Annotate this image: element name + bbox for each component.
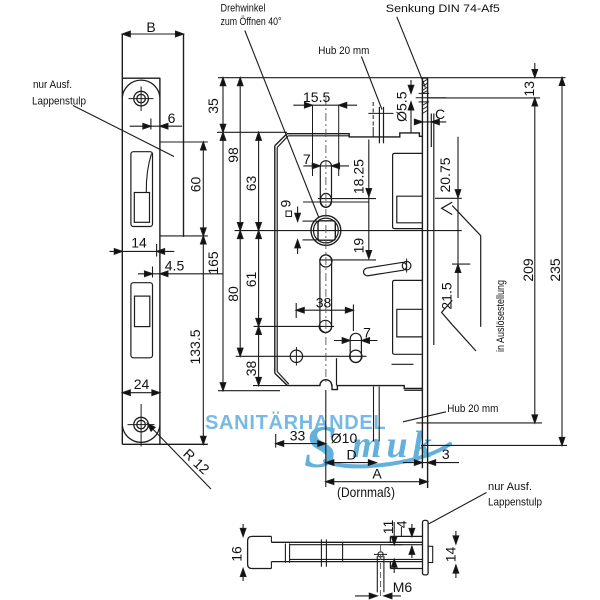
svg-text:38: 38 — [316, 295, 332, 311]
svg-text:zum Öffnen 40°: zum Öffnen 40° — [221, 16, 282, 28]
svg-text:133.5: 133.5 — [187, 329, 203, 364]
stulp strip — [421, 78, 423, 468]
svg-text:165: 165 — [205, 251, 221, 275]
svg-text:13: 13 — [521, 81, 537, 97]
dim 15.5 — [293, 104, 357, 106]
M6 hole — [378, 552, 383, 557]
svg-text:20.75: 20.75 — [437, 157, 453, 192]
svg-text:(Dornmaß): (Dornmaß) — [337, 484, 395, 500]
svg-text:60: 60 — [188, 177, 204, 193]
svg-text:6: 6 — [168, 110, 176, 126]
upper slot — [320, 161, 331, 208]
case top profile — [287, 133, 423, 137]
lower slot — [320, 255, 332, 332]
leader Hub bottom — [403, 412, 446, 422]
watermark — [205, 411, 450, 480]
dim 14 — [455, 531, 457, 544]
svg-text:24: 24 — [134, 376, 150, 392]
svg-text:14: 14 — [443, 547, 459, 563]
case left edge double — [274, 146, 276, 373]
latch bevel curve — [146, 154, 151, 193]
latch cutout window — [131, 152, 153, 227]
dim 209 line — [534, 98, 536, 423]
svg-text:M6: M6 — [393, 579, 413, 595]
svg-text:38: 38 — [243, 361, 259, 377]
svg-text:61: 61 — [243, 272, 259, 288]
dim 38 horizontal between holes — [296, 309, 353, 311]
lower inner box — [397, 309, 423, 337]
dim O5.5 — [410, 80, 412, 93]
small line under lower recess — [392, 363, 414, 365]
svg-text:A: A — [372, 466, 382, 482]
dim 33 — [276, 443, 326, 445]
svg-text:7: 7 — [303, 151, 311, 167]
fixing hole right with slot — [350, 350, 362, 362]
case inner top line — [288, 135, 349, 137]
svg-text:16: 16 — [229, 546, 245, 562]
dim 18.25 — [368, 140, 370, 259]
svg-text:Ø10: Ø10 — [331, 430, 358, 446]
svg-text:nur Ausf.: nur Ausf. — [33, 79, 72, 91]
upper recess — [393, 153, 423, 228]
svg-text:209: 209 — [520, 258, 536, 282]
svg-text:3: 3 — [442, 446, 450, 462]
dim 98 and 80 vertical line — [239, 78, 241, 357]
svg-text:7: 7 — [363, 325, 371, 341]
svg-text:235: 235 — [547, 258, 563, 282]
screw hole top — [129, 87, 154, 112]
dim 7 right slot — [334, 340, 378, 342]
stulp plate right edge — [159, 78, 161, 445]
svg-text:Hub 20 mm: Hub 20 mm — [318, 45, 369, 57]
svg-text:4: 4 — [394, 520, 410, 528]
svg-text:C: C — [435, 106, 445, 122]
dim 4.5 — [138, 273, 223, 275]
svg-text:Senkung DIN 74-Af5: Senkung DIN 74-Af5 — [386, 3, 500, 15]
leader Senkung — [397, 17, 426, 88]
svg-text:35: 35 — [205, 98, 221, 114]
screw hole in strip — [419, 92, 430, 94]
latch tab — [428, 546, 433, 562]
dim D and 3 — [326, 462, 377, 464]
deadbolt released outline chevron 1 — [442, 202, 453, 214]
dim 6 — [130, 125, 182, 127]
strip hatch — [422, 79, 427, 114]
dim B — [122, 33, 183, 35]
M6 ext and arrows — [376, 556, 378, 592]
svg-text:D: D — [346, 447, 356, 463]
centerline ext below case — [325, 390, 327, 487]
svg-text:98: 98 — [225, 147, 241, 163]
svg-text:Lappenstulp: Lappenstulp — [488, 497, 542, 509]
svg-text:15.5: 15.5 — [303, 89, 330, 105]
release pin capsule — [363, 262, 407, 277]
shared extension lines — [218, 77, 566, 79]
svg-text:33: 33 — [290, 427, 306, 443]
follower square 9 — [318, 221, 335, 240]
rounded end arc bottom — [122, 425, 160, 442]
bolt guide vertical — [336, 358, 338, 385]
deadbolt released outline chevron 2 — [442, 300, 453, 324]
svg-text:B: B — [146, 19, 155, 35]
svg-text:14: 14 — [131, 235, 147, 251]
dim 24 — [122, 392, 160, 394]
svg-text:nur Ausf.: nur Ausf. — [488, 481, 532, 493]
dim 11 — [393, 522, 395, 545]
svg-text:63: 63 — [243, 176, 259, 192]
lower slot hole top — [320, 255, 332, 267]
svg-text:Hub 20 mm: Hub 20 mm — [447, 403, 498, 415]
case bottom edge with notch — [288, 380, 423, 390]
dim 20.75 and 21.5 — [457, 137, 459, 298]
stulp plate left edge — [121, 34, 123, 444]
svg-text:in Auslösestellung: in Auslösestellung — [495, 280, 507, 352]
follower nut — [311, 216, 341, 246]
latch window edges — [312, 105, 314, 176]
stulp top edge — [122, 77, 160, 79]
body top/bottom — [271, 541, 422, 543]
svg-text:Lappenstulp: Lappenstulp — [32, 96, 86, 108]
dim 4 — [411, 524, 413, 536]
centerline dashed — [325, 97, 327, 385]
svg-text:80: 80 — [225, 286, 241, 302]
upper inner box — [397, 196, 423, 223]
right block — [390, 535, 422, 537]
left end block — [248, 536, 272, 568]
text labels left side — [32, 19, 259, 477]
svg-text:9: 9 — [278, 200, 294, 208]
svg-text:Drehwinkel: Drehwinkel — [221, 3, 266, 15]
dim 16 — [242, 524, 244, 536]
svg-text:Ø5.5: Ø5.5 — [394, 91, 410, 122]
dividers — [284, 544, 286, 563]
latch front faces — [430, 114, 432, 148]
dim 7 top — [303, 165, 349, 167]
latch face — [134, 193, 149, 223]
svg-text:19: 19 — [351, 238, 367, 254]
stulp bottom edge plus ext — [122, 443, 208, 445]
dim 235 — [561, 78, 563, 446]
main view texts — [221, 3, 564, 501]
dim 35 and 165 vertical line — [222, 78, 224, 391]
dim A — [326, 481, 428, 483]
O10 feature lines — [373, 387, 375, 442]
stulp plate section — [423, 520, 429, 575]
latch tail pair — [378, 107, 380, 144]
dim 13 — [534, 63, 536, 78]
ext lines for 60 — [160, 141, 207, 143]
top-left chamfer — [275, 134, 287, 146]
dim 14 — [110, 250, 175, 252]
lower slot hole bottom — [319, 320, 331, 332]
bottom-left chamfer — [275, 373, 288, 385]
dim 63 61 38 vertical line — [258, 132, 260, 385]
bolt cutout window — [131, 283, 153, 358]
leader nur Ausf. (bottom) — [429, 493, 487, 524]
screw hole bottom — [128, 404, 155, 447]
dim C — [415, 121, 447, 123]
svg-text:4.5: 4.5 — [165, 258, 185, 274]
leader Drehwinkel — [245, 31, 319, 218]
leader Hub top — [361, 57, 382, 110]
leader nur Ausf. Lappenstulp (left) — [73, 106, 174, 157]
dim 19 — [366, 251, 372, 259]
upper hole — [321, 193, 332, 207]
svg-text:18.25: 18.25 — [351, 159, 367, 194]
leader R 12 — [149, 425, 211, 489]
rounded end arc top — [122, 80, 160, 97]
lower recess — [393, 280, 423, 354]
fixing hole left — [290, 350, 302, 362]
bolt face — [135, 296, 150, 327]
dim square 9 — [297, 207, 299, 222]
dim 60 and 133.5 vertical line — [202, 142, 204, 444]
svg-text:21.5: 21.5 — [439, 282, 455, 309]
svg-text:S: S — [304, 414, 337, 480]
lappenstulp B right edge — [183, 34, 185, 237]
